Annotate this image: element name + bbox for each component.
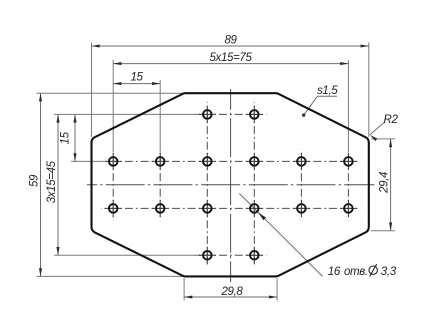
- extension line, bottom corner (dim 29,4): [371, 230, 395, 232]
- holes grid: crosses: [105, 106, 357, 264]
- arrows of dim 15 top: [113, 82, 160, 85]
- extension line, hole row 2 (dim 15 left): [71, 160, 104, 162]
- svg-text:29,8: 29,8: [221, 286, 244, 298]
- leader line of note R2: [370, 123, 384, 135]
- extension line, hole row 4 (dim 3x15=45): [54, 254, 202, 256]
- svg-text:s1,5: s1,5: [317, 85, 338, 97]
- center line, hole row 2: [101, 160, 361, 162]
- arrows of dim 29,8: [184, 295, 277, 298]
- center line, horizontal plate axis: [87, 184, 375, 186]
- leader line of note 16 otv d3,3: [239, 193, 322, 276]
- svg-text:5x15=75: 5x15=75: [210, 52, 253, 64]
- dimension line 5x15=75: [113, 63, 348, 65]
- svg-text:отв.: отв.: [344, 266, 368, 278]
- svg-text:29,4: 29,4: [379, 172, 391, 194]
- center line, hole row 3: [101, 207, 361, 209]
- leader dot of note s1,5: [302, 113, 305, 116]
- extension line, right end of dim 29,8: [276, 278, 278, 301]
- extension line, top corner (dim 29,4): [371, 138, 395, 140]
- arrows of dim 5x15=75: [113, 62, 348, 65]
- dimension line 15 top: [113, 83, 160, 85]
- center line, hole row 1: [195, 113, 267, 115]
- center line, hole column 4: [253, 102, 255, 267]
- arrows of dim 3x15=45: [56, 114, 59, 255]
- center line, hole row 4: [195, 254, 267, 256]
- diameter symbol: [369, 264, 377, 276]
- arrows of dim 59: [39, 93, 42, 276]
- extension line, left end of dim 29,8: [183, 278, 185, 301]
- leader line of note s1,5: [304, 96, 337, 115]
- center line, hole column 2: [159, 150, 161, 221]
- svg-text:15: 15: [59, 131, 71, 144]
- center line, hole column 6: [347, 150, 349, 221]
- dimension line 29,8: [184, 296, 277, 298]
- arrows of dim 15 left: [73, 114, 76, 161]
- extension line, plate bottom edge (dim 59): [37, 275, 184, 277]
- arrow of leader 16 otv: [258, 212, 266, 220]
- dimension line 89: [92, 45, 369, 47]
- svg-text:3,3: 3,3: [381, 266, 397, 278]
- dimension line 59: [40, 93, 42, 276]
- arrows of dim 29,4: [389, 139, 392, 231]
- arrow of leader R2: [370, 135, 377, 141]
- extension line, column 2 (dim 15 top): [159, 80, 161, 152]
- dimension line 15 left: [74, 114, 76, 161]
- extension line, left end of dim 89: [91, 43, 93, 138]
- svg-text:3x15=45: 3x15=45: [46, 160, 58, 203]
- dimension line 29,4: [390, 139, 392, 231]
- plate outline octagon with R2 corners: [91, 93, 368, 276]
- svg-text:59: 59: [29, 174, 41, 187]
- extension line, column 6 (dim 5x15=75): [347, 60, 349, 152]
- dimension line 3x15=45: [57, 114, 59, 255]
- center line, vertical plate axis: [230, 89, 232, 282]
- center line, hole column 3: [206, 102, 208, 267]
- svg-text:15: 15: [130, 72, 143, 84]
- svg-text:89: 89: [224, 35, 237, 47]
- svg-text:16: 16: [328, 266, 341, 278]
- extension line, column 1 (dims 5x15=75 and 15): [112, 60, 114, 152]
- extension line, plate top edge (dim 59): [37, 92, 184, 94]
- extension line, hole row 1 (dims 3x15=45 and 15): [54, 113, 202, 115]
- extension line, right end of dim 89: [368, 43, 370, 138]
- center line, hole column 1: [112, 150, 114, 221]
- arrows of dim 89: [92, 44, 369, 47]
- center line, hole column 5: [300, 150, 302, 221]
- svg-text:R2: R2: [384, 114, 399, 126]
- hole circles 16 x d3,3: [109, 110, 353, 259]
